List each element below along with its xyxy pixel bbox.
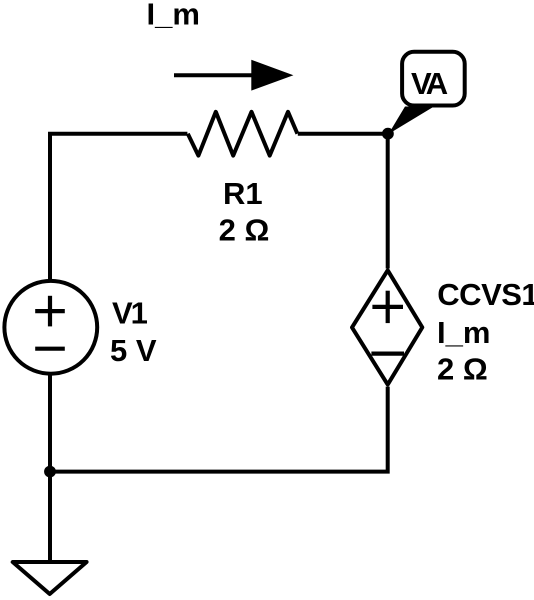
node VA tag pointer wedge (389, 107, 435, 135)
ground junction dot (44, 466, 56, 478)
CCVS1 plus sign (372, 291, 403, 323)
svg-text:R1: R1 (223, 176, 263, 211)
svg-text:5 V: 5 V (110, 333, 157, 368)
node A junction dot (382, 128, 394, 140)
V1 plus sign (35, 296, 65, 327)
svg-text:I_m: I_m (147, 0, 200, 32)
wire top-right horizontal (298, 132, 388, 136)
current direction arrow (174, 60, 293, 91)
dependent source CCVS1 diamond (352, 270, 422, 384)
resistor R1 (188, 112, 298, 156)
CCVS1 minus sign (371, 352, 404, 356)
wire right vertical upper (386, 134, 390, 269)
svg-text:VA: VA (411, 66, 448, 101)
svg-text:CCVS1: CCVS1 (437, 277, 534, 312)
node VA tag box (402, 52, 465, 106)
wire ground stub (48, 472, 52, 562)
wire top-left horizontal (50, 134, 187, 281)
svg-text:V1: V1 (112, 296, 148, 331)
ground symbol triangle (13, 562, 87, 594)
svg-text:2 Ω: 2 Ω (219, 213, 270, 248)
svg-text:I_m: I_m (437, 315, 490, 350)
wire right vertical lower and bottom horizontal (50, 387, 388, 472)
wire left vertical lower (48, 374, 52, 472)
voltage source V1 circle (4, 281, 97, 374)
V1 minus sign (35, 347, 65, 351)
svg-text:2 Ω: 2 Ω (437, 351, 488, 386)
